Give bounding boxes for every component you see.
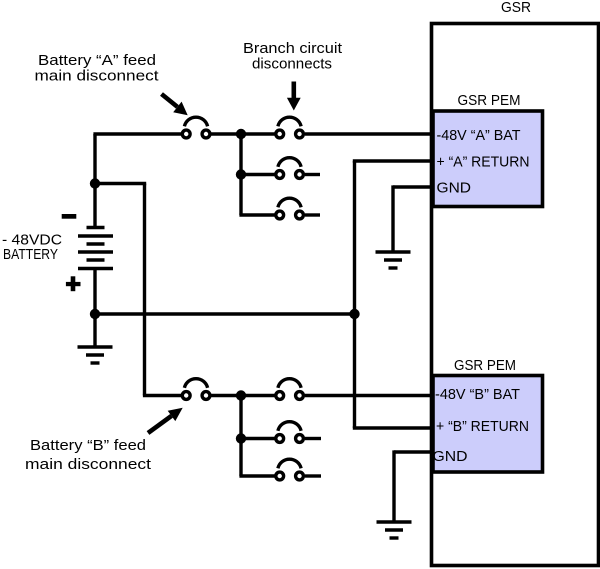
junction node: battery negative / B feed tap — [90, 178, 100, 188]
GSR PEM A box — [433, 111, 543, 207]
wire: A branch row2 left — [241, 173, 275, 176]
wire: PEM B GND vertical — [392, 450, 395, 522]
wire: B branch row2 left — [241, 437, 275, 440]
GSR PEM B box — [433, 376, 543, 473]
svg-text:-48V “B” BAT: -48V “B” BAT — [435, 386, 520, 403]
svg-text:main disconnect: main disconnect — [35, 68, 160, 85]
svg-text:GND: GND — [433, 448, 468, 465]
svg-text:BATTERY: BATTERY — [3, 246, 58, 263]
svg-text:-48V “A” BAT: -48V “A” BAT — [437, 127, 521, 144]
wire: A feed top horizontal to main disconnect — [93, 132, 181, 135]
breaker: A branch disconnect row3 — [276, 198, 304, 219]
junction node: B branch row2 — [236, 433, 246, 443]
svg-text:GSR PEM: GSR PEM — [454, 357, 516, 374]
breaker: A branch disconnect row2 — [276, 158, 304, 179]
wire: A branch row2 stub — [305, 173, 320, 176]
wire: B branch row1 to PEM B BAT pin — [305, 394, 431, 397]
battery minus polarity mark — [62, 214, 77, 219]
wire: B branch row3 left — [239, 474, 274, 477]
svg-text:+ “A” RETURN: + “A” RETURN — [437, 154, 530, 171]
wire: B branch row3 stub — [305, 474, 321, 477]
arrow to A main disconnect — [162, 94, 188, 115]
breaker: B branch disconnect row2 — [276, 422, 304, 443]
wire: A branch row1 to PEM A BAT pin — [305, 132, 431, 135]
wire: battery bottom vertical to ground — [93, 269, 96, 348]
junction node: return bus tee — [349, 309, 359, 319]
battery BT1 -48VDC — [78, 228, 113, 269]
ground symbol for PEM B GND — [377, 522, 412, 538]
svg-text:Branch circuit: Branch circuit — [243, 40, 343, 57]
wire: battery top branch to B feed — [95, 182, 146, 185]
svg-text:Battery “A” feed: Battery “A” feed — [38, 52, 156, 69]
junction node: battery positive / return — [90, 309, 100, 319]
arrow to branch disconnects — [287, 82, 301, 111]
breaker: B branch disconnect row3 — [276, 459, 304, 480]
junction node: A feed / branch bus — [236, 129, 246, 139]
wire: A feed left vertical from top wire to battery — [93, 134, 96, 228]
wire: B branch vertical bus — [239, 396, 242, 477]
ground symbol for PEM A GND — [376, 252, 411, 268]
svg-text:GSR: GSR — [501, 0, 531, 16]
breaker: Battery A main disconnect — [182, 117, 210, 138]
wire: PEM A GND horizontal — [393, 185, 431, 188]
ground symbol below battery — [78, 347, 113, 363]
breaker: Battery B main disconnect — [182, 379, 210, 400]
wire: A branch vertical bus — [239, 134, 242, 215]
wire: A branch row3 left — [239, 213, 274, 216]
svg-text:+ “B” RETURN: + “B” RETURN — [436, 418, 529, 435]
breaker: B branch disconnect row1 — [276, 379, 304, 400]
wire: B main disconnect to branch junction — [211, 394, 275, 397]
breaker: A branch disconnect row1 — [276, 117, 304, 138]
wire: A main disconnect to branch junction — [211, 132, 275, 135]
svg-text:disconnects: disconnects — [252, 56, 332, 73]
wire: PEM B GND horizontal — [394, 450, 431, 453]
arrow to B main disconnect — [148, 408, 183, 433]
wire: PEM A GND vertical — [391, 185, 394, 252]
wire: return horizontal bus — [95, 312, 355, 315]
svg-text:GND: GND — [437, 180, 472, 197]
wire: B branch row2 stub — [305, 437, 321, 440]
battery plus polarity mark — [66, 276, 81, 291]
wire: A branch row3 stub — [305, 213, 320, 216]
wire: A return into PEM A — [353, 159, 431, 162]
wire: B return into PEM B — [353, 426, 431, 429]
junction node: B feed / branch bus — [236, 390, 246, 400]
wire: B feed vertical — [143, 184, 146, 396]
svg-text:main disconnect: main disconnect — [25, 456, 152, 473]
svg-text:Battery “B” feed: Battery “B” feed — [30, 437, 146, 454]
junction node: A branch row2 — [236, 169, 246, 179]
GSR enclosure rectangle — [432, 24, 599, 566]
svg-text:GSR PEM: GSR PEM — [458, 92, 521, 109]
wire: B feed horizontal to main disconnect — [143, 394, 181, 397]
wire: return vertical bus — [353, 161, 356, 428]
